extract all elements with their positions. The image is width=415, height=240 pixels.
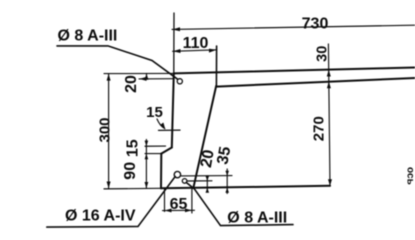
svg-text:Ø 8 A-III: Ø 8 A-III (58, 28, 118, 45)
svg-text:Ø 16 A-IV: Ø 16 A-IV (65, 207, 136, 224)
svg-text:65: 65 (170, 196, 188, 213)
svg-text:35: 35 (214, 145, 234, 166)
svg-text:15: 15 (146, 104, 163, 121)
svg-text:30: 30 (315, 46, 331, 62)
svg-text:270: 270 (311, 116, 328, 141)
svg-text:20: 20 (123, 75, 140, 93)
svg-text:300: 300 (97, 117, 114, 142)
svg-text:110: 110 (183, 35, 209, 52)
svg-text:730: 730 (302, 15, 329, 32)
svg-text:15: 15 (125, 139, 142, 157)
svg-text:Ø 8 A-III: Ø 8 A-III (227, 209, 287, 226)
svg-text:ось: ось (404, 167, 415, 185)
svg-text:90: 90 (122, 162, 139, 180)
